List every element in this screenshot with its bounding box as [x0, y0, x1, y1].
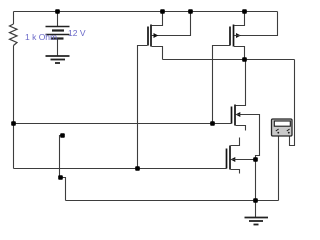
ground GND2: [245, 218, 269, 225]
wire multimeter minus lead: [278, 136, 280, 201]
transistor Q3 bulk lead to node: [236, 115, 260, 160]
transistor Q3 source stub: [236, 126, 246, 131]
junction Q1 bulk rail: [188, 9, 193, 14]
junction ground node: [253, 198, 258, 203]
wire node to ground junction: [255, 160, 257, 201]
wire L4 bottom bus: [66, 200, 279, 202]
ground GND1: [46, 56, 70, 63]
transistor Q4 NMOS body: [227, 146, 231, 170]
multimeter XMM1 knobs: [276, 129, 290, 134]
transistor Q2 drain lead: [234, 12, 245, 26]
transistor Q1 bulk lead to rail: [152, 12, 191, 36]
junction battery rail: [55, 9, 60, 14]
wire top rail VDD: [14, 11, 278, 13]
transistor Q2 bulk lead stub: [234, 35, 240, 37]
value label battery 12 V: [68, 28, 86, 38]
resistor R1 1 k Ohm: [10, 24, 18, 46]
transistor Q3 bulk arrow: [236, 112, 241, 117]
wire L2 gate bus to Q3: [14, 123, 232, 125]
transistor Q1 gate lead: [138, 46, 148, 169]
transistor Q3 drain lead to Lmid: [236, 60, 246, 106]
transistor Q4 bulk arrow: [231, 157, 236, 162]
wire L3 gate bus to Q4: [14, 168, 227, 170]
transistor Q2 gate lead: [213, 46, 231, 124]
junction Q1 drain rail: [160, 9, 165, 14]
junction Q1 gate L3: [135, 166, 140, 171]
wire battery stem: [57, 12, 59, 27]
wire left branch top: [13, 12, 15, 25]
junction L2 left: [11, 121, 16, 126]
junction source bus: [242, 57, 247, 62]
value label resistor 1 k Ohm: [25, 32, 57, 42]
transistor Q2 PMOS body: [230, 25, 234, 47]
junction node A bottom: [58, 175, 63, 180]
junction bulk node: [253, 157, 258, 162]
junction Q2 drain rail: [242, 9, 247, 14]
transistor Q3 NMOS body: [232, 105, 236, 126]
wire Lmid source bus: [163, 59, 295, 61]
transistor Q4 source stub: [231, 170, 240, 174]
transistor Q1 PMOS body: [148, 25, 151, 47]
junction Q2 gate L2: [210, 121, 215, 126]
junction node A top: [60, 133, 65, 138]
transistor Q2 bulk arrow: [236, 33, 241, 38]
transistor Q1 drain lead: [152, 12, 163, 26]
wire rail right drop to Q2 bulk: [234, 12, 278, 36]
wire Lmid to multimeter plus: [290, 60, 295, 146]
wire battery to ground: [57, 39, 59, 56]
wire left branch bottom: [13, 46, 15, 169]
transistor Q2 source lead: [234, 47, 245, 60]
wire ground stem: [255, 201, 257, 218]
transistor Q1 bulk arrow: [154, 33, 159, 38]
wire feedback drop left: [60, 136, 66, 201]
transistor Q1 source lead: [152, 47, 163, 60]
battery V1 12 V: [46, 27, 70, 39]
transistor Q4 bulk lead to node: [231, 159, 256, 161]
multimeter XMM1 body: [272, 119, 293, 136]
transistor Q4 drain stub: [231, 138, 240, 146]
